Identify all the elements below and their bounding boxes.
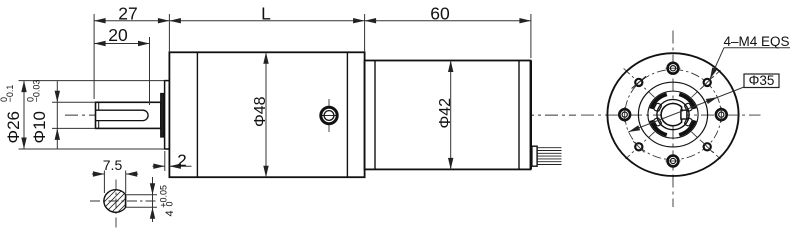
washer hub (Phi15) [161,94,164,138]
gearbox internal seam 1 [196,52,198,177]
svg-text:Φ35: Φ35 [749,73,775,88]
dimension 2 (boss protrusion) [164,151,166,171]
screw bottom [666,156,681,167]
retainer thick arc seg 4 [679,120,694,134]
retainer tab upper-right [684,103,693,112]
top dimension line 27 / L / 60 [94,20,531,22]
motor end face (thick) [530,61,532,170]
section centerline horizontal [90,200,158,202]
front view vertical centerline [672,31,674,208]
section flat edge [125,195,127,208]
M4 hole lower-right [702,141,713,152]
bolt circle Phi35 (dash-dot) [625,70,721,160]
Phi10 dimension line (outside arrows) [56,81,58,149]
gearbox internal seam 2 [346,52,348,177]
Phi35 label box [744,74,779,88]
retainer thick arc seg 2 [651,94,666,108]
svg-text:L: L [261,4,271,24]
diagonal centerline 45deg [691,70,720,97]
motor front flange seam [374,61,376,170]
Phi26 dimension line [23,81,25,149]
shaft (Phi10) [96,102,161,128]
Phi10 label [26,80,50,144]
motor body (Phi42, 60mm) [365,61,531,170]
dimension 20 (flat length) [149,37,151,105]
Phi35 diameter leader line [629,87,745,132]
Phi10 extension lines [52,101,96,103]
svg-text:Φ26: Φ26 [4,111,23,143]
Phi48 dimension [265,52,267,177]
M4 hole lower-left [633,141,644,152]
main axis centerline (side view) [65,114,576,116]
Phi42 dimension [450,61,452,170]
retainer tab lower-right [684,117,693,126]
screw top [666,63,681,74]
retainer thick arc seg 3 [651,120,666,134]
front boss (Phi26, 2mm) [165,81,170,149]
side screw head on gearbox [328,99,330,132]
wire grommet [532,146,537,166]
dimension 7.5 (section detail) [103,171,105,194]
svg-text:27: 27 [118,4,137,24]
section centerline vertical [115,180,117,230]
screw right [716,107,727,122]
svg-text:Φ48: Φ48 [252,96,269,127]
lead wires [537,148,561,165]
shaft chamfer ticks [98,102,100,110]
svg-text:7.5: 7.5 [103,157,123,173]
4-M4 leader [710,48,724,79]
M4 hole upper-left (with cross tick) [632,76,646,88]
svg-text:2: 2 [177,151,186,170]
M4 hole upper-right [702,77,713,88]
svg-text:60: 60 [430,4,450,24]
Phi26 label [0,85,23,144]
gearbox housing (Phi48, length L) [169,52,364,177]
key block on flat [681,110,687,119]
pilot circle [638,82,707,147]
retainer thick arc seg 1 [679,94,694,108]
screw left [619,107,630,122]
shaft flat (4mm slot, rounded end) [96,110,149,120]
motor end-bell seam [518,61,520,170]
svg-text:−0.1: −0.1 [5,85,15,103]
bearing ring circle [657,100,689,130]
svg-text:4: 4 [164,210,176,216]
diagonal centerline 135deg [624,68,655,97]
svg-text:Φ10: Φ10 [30,111,49,143]
svg-text:Φ42: Φ42 [437,98,454,129]
flange outer circle (Phi48) [607,53,738,176]
svg-text:4–M4 EQS: 4–M4 EQS [724,34,790,49]
top dimension extension lines [93,14,95,99]
dimension 4 line with outside arrows [152,177,154,222]
dimension 4 +0.05/0 extension lines [126,194,157,196]
shaft circle with flat [661,103,682,125]
front view horizontal centerline [581,114,761,116]
svg-text:0: 0 [164,201,174,206]
Phi26 extension lines [19,80,165,82]
svg-text:20: 20 [108,25,128,45]
diagonal centerline 315deg [691,132,720,159]
shaft section detail [88,173,176,229]
retainer tab lower-left [653,117,662,126]
retainer outer edge circle [648,91,698,138]
retainer tab upper-left [653,103,662,112]
diagonal centerline 225deg [626,132,655,159]
svg-text:−0.03: −0.03 [31,80,41,103]
